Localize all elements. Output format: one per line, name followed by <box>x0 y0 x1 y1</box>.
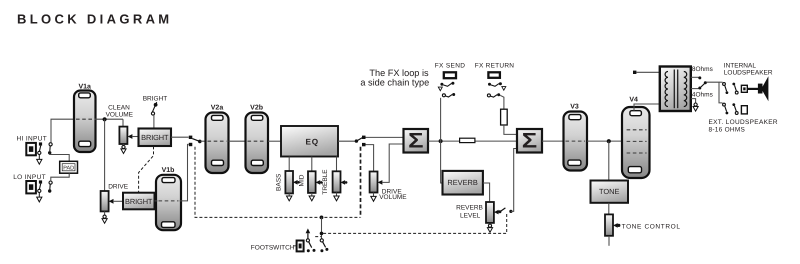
wire inside V2a (dashed) <box>208 140 227 142</box>
svg-text:VOLUME: VOLUME <box>379 194 407 201</box>
wire EQ to BASS pot <box>288 157 290 172</box>
wire HI switch up to V1a grid <box>51 119 75 142</box>
ground arrow below LO switch <box>37 197 42 202</box>
resistor FX loop series <box>460 138 475 142</box>
wire inside V3 (dashed) <box>566 140 586 142</box>
terminal B+ supply <box>633 71 636 74</box>
switch LO jack tip contact <box>38 180 42 197</box>
wire into CLEAN VOLUME pot <box>122 119 124 126</box>
wire junction down to TONE <box>608 141 610 180</box>
wire BRIGHT2 to V1b <box>155 200 158 202</box>
dashed line y217 junction node <box>320 216 324 220</box>
block REVERB <box>443 171 483 195</box>
svg-text:FOOTSWITCH: FOOTSWITCH <box>251 244 295 251</box>
potentiometer MID <box>308 171 316 193</box>
svg-text:REVERB: REVERB <box>447 178 477 187</box>
svg-text:V1a: V1a <box>78 83 91 90</box>
wire lower contact to DRIVE VOLUME <box>366 145 374 172</box>
wire impedance common to speakers <box>707 82 723 103</box>
dashed thick footswitch line to EQ switch <box>360 147 362 218</box>
svg-text:EXT. LOUDSPEAKER: EXT. LOUDSPEAKER <box>709 119 778 126</box>
wiper arrow BASS <box>293 180 300 185</box>
svg-text:VOLUME: VOLUME <box>106 111 134 118</box>
ground arrow below HI switch <box>37 159 42 164</box>
switch channel select (clean/drive) <box>189 136 202 147</box>
wire up to FX SEND jack <box>440 98 442 141</box>
wire jack to speaker <box>747 88 758 90</box>
switch LO shorting contact <box>48 181 52 193</box>
dashed gang link BRIGHT1 to BRIGHT2 <box>139 146 154 192</box>
svg-text:BRIGHT: BRIGHT <box>143 95 168 102</box>
dashed footswitch line to channel switch <box>195 147 361 218</box>
potentiometer CLEAN VOLUME <box>119 127 127 144</box>
svg-text:LOUDSPEAKER: LOUDSPEAKER <box>724 70 773 77</box>
svg-text:V4: V4 <box>629 96 638 103</box>
dashed jog at footswitch <box>315 236 321 238</box>
tube V3 <box>564 104 588 171</box>
svg-text:FX RETURN: FX RETURN <box>475 63 515 70</box>
svg-text:TREBLE: TREBLE <box>322 169 329 195</box>
tube V2a <box>206 104 229 173</box>
jack FX SEND <box>444 72 456 78</box>
svg-text:TONE: TONE <box>599 187 619 196</box>
svg-text:MID: MID <box>299 174 306 186</box>
ground transformer secondary <box>691 99 698 112</box>
svg-text:V2a: V2a <box>211 104 224 111</box>
wire EQ to MID pot <box>311 157 313 172</box>
dashed footswitch line to reverb switch <box>322 214 507 233</box>
wire V4 plate to transformer <box>634 104 660 111</box>
svg-text:4Ohms: 4Ohms <box>692 91 714 98</box>
switch FX SEND lower contact <box>442 93 455 97</box>
ground below BASS pot <box>287 193 292 201</box>
wire SIGMA1 out to SIGMA2 <box>428 140 517 142</box>
wiper arrow TONE CONTROL <box>613 223 620 228</box>
block BRIGHT (drive channel) <box>123 193 155 210</box>
switch internal speaker b <box>732 83 738 94</box>
potentiometer REVERB LEVEL <box>486 202 494 223</box>
potentiometer TREBLE <box>333 171 341 192</box>
svg-text:8-16 OHMS: 8-16 OHMS <box>709 126 746 133</box>
switch internal speaker a <box>723 83 729 94</box>
wire footswitch riser <box>321 217 323 239</box>
wiper arrow DRIVE <box>109 199 123 204</box>
svg-text:a side chain type: a side chain type <box>360 78 429 88</box>
svg-text:V1b: V1b <box>162 166 175 174</box>
wire LO shorting contact to PAD bottom <box>51 173 69 181</box>
svg-text:DRIVE: DRIVE <box>108 183 129 190</box>
wire to internal speaker row <box>719 81 723 83</box>
speaker internal loudspeaker <box>758 76 769 101</box>
svg-text:Σ: Σ <box>408 130 423 153</box>
svg-text:BASS: BASS <box>276 173 283 191</box>
wire TONE to pot <box>608 203 610 215</box>
switch impedance select 8 ohm tap <box>691 76 702 79</box>
wire reverb switch to SIGMA2 bottom input <box>511 149 517 212</box>
block EQ <box>281 126 338 157</box>
jack internal speaker <box>741 85 747 92</box>
wire upper contact to SIGMA1 <box>366 136 404 138</box>
wiper arrow CLEAN VOLUME <box>128 134 139 139</box>
node phase splitter junction <box>607 139 611 143</box>
switch footswitch 2 <box>320 239 328 252</box>
switch ext speaker a <box>723 103 729 114</box>
svg-text:Σ: Σ <box>522 130 537 153</box>
svg-text:8Ohms: 8Ohms <box>692 66 714 73</box>
wiper arrow TREBLE <box>341 180 348 185</box>
svg-text:HI INPUT: HI INPUT <box>17 136 48 143</box>
wiper arrow DRIVE VOLUME <box>378 144 404 185</box>
node footswitch dashed junction <box>320 232 324 236</box>
wire V1a plate out <box>95 118 124 120</box>
switch HI jack tip contact <box>38 142 42 159</box>
tube V2b <box>246 103 269 173</box>
potentiometer TONE <box>605 214 613 235</box>
wire inside V2b (dashed) <box>248 140 267 142</box>
block BRIGHT (clean channel) <box>139 129 172 147</box>
jack FX RETURN <box>488 72 500 78</box>
svg-text:The FX loop is: The FX loop is <box>369 68 429 78</box>
wire BRIGHT1 out to clean contact <box>171 136 189 138</box>
wire FX RETURN down to resistor <box>500 95 504 109</box>
switch ext speaker b <box>732 103 738 114</box>
wire below TONE pot <box>608 236 610 246</box>
wire switch to V2a <box>201 140 207 142</box>
potentiometer BASS <box>285 171 293 193</box>
switch EQ output (channel gang) <box>355 136 366 147</box>
jack FOOTSWITCH <box>293 241 304 252</box>
jack HI INPUT <box>26 143 36 155</box>
wire V2b to EQ <box>268 140 281 142</box>
potentiometer DRIVE <box>101 191 109 211</box>
wire HI shorting contact to PAD top <box>50 154 69 162</box>
wire B+ to transformer primary <box>636 71 659 73</box>
wire V3 to V4 <box>587 140 623 142</box>
wire inside V1a (dashed) <box>76 118 94 120</box>
ground below CLEAN VOLUME pot <box>121 144 126 154</box>
wire resistor to SIGMA2 upper input <box>504 125 517 134</box>
tube V1b <box>156 166 181 230</box>
tube V4 power <box>622 96 650 178</box>
wire inside V1b (dashed) <box>159 200 179 202</box>
svg-text:REVERB: REVERB <box>456 204 483 211</box>
switch REVERB on/off with wiper arrow <box>494 208 513 215</box>
block SIGMA2 summing amp <box>517 129 542 153</box>
svg-text:BLOCK DIAGRAM: BLOCK DIAGRAM <box>17 12 173 27</box>
wire V2a to V2b <box>229 140 248 142</box>
attenuator PAD <box>60 161 78 173</box>
node FX send / reverb tap <box>439 139 443 143</box>
wire EQ out to loop switch <box>338 140 355 142</box>
svg-text:PAD: PAD <box>63 165 74 171</box>
transformer output <box>660 67 691 112</box>
wire junction down to DRIVE pot <box>104 119 106 191</box>
wire SIGMA2 out to V3 <box>542 140 565 142</box>
wire EQ to TREBLE pot <box>336 157 338 172</box>
svg-text:BRIGHT: BRIGHT <box>125 197 153 206</box>
svg-text:V2b: V2b <box>250 103 263 111</box>
node V1a output junction <box>103 117 107 121</box>
svg-text:LEVEL: LEVEL <box>460 213 481 220</box>
ground below MID pot <box>309 193 314 201</box>
block SIGMA1 summing amp <box>404 129 429 153</box>
switch BRIGHT <box>151 102 157 128</box>
tube V1a <box>74 83 96 152</box>
switch footswitch 1 with arrow <box>306 228 316 252</box>
switch FX RETURN upper contact <box>488 82 506 90</box>
svg-text:TONE CONTROL: TONE CONTROL <box>622 223 681 230</box>
svg-text:EQ: EQ <box>305 138 318 147</box>
grid lines inside V4 (dashed rows) <box>627 130 647 153</box>
potentiometer DRIVE VOLUME <box>370 172 378 193</box>
block TONE <box>591 181 629 203</box>
wire junction down to REVERB <box>441 141 443 183</box>
switch HI shorting contact <box>48 143 52 155</box>
svg-text:BRIGHT: BRIGHT <box>141 133 169 142</box>
jack ext speaker (empty) <box>741 106 747 114</box>
wire V1b out up to drive contact <box>180 144 189 201</box>
switch FX RETURN lower contact <box>487 93 500 97</box>
resistor FX return series <box>501 109 508 125</box>
ground below TREBLE pot <box>334 193 339 201</box>
ground below REVERB LEVEL pot <box>487 223 492 232</box>
switch impedance select 4 ohm tap <box>691 81 707 89</box>
ground below DRIVE pot <box>102 211 107 223</box>
wiper arrow MID <box>316 180 323 185</box>
svg-text:INTERNAL: INTERNAL <box>724 62 757 69</box>
svg-text:FX SEND: FX SEND <box>435 63 466 70</box>
switch FX SEND upper contact <box>438 82 454 91</box>
jack LO INPUT <box>26 181 36 193</box>
svg-text:V3: V3 <box>570 104 579 111</box>
ground below DRIVE VOLUME pot <box>371 193 376 202</box>
wire REVERB out to level pot <box>483 183 490 202</box>
